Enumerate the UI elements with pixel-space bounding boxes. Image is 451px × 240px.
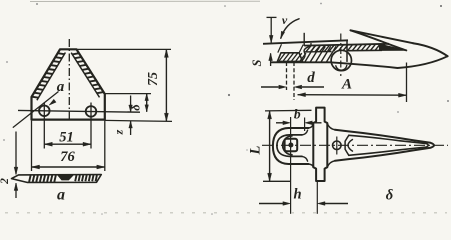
svg-text:76: 76 [60, 149, 75, 165]
svg-text:h: h [293, 187, 301, 203]
svg-text:S: S [250, 59, 264, 66]
svg-text:A: A [341, 77, 352, 93]
svg-text:а: а [57, 187, 65, 204]
svg-text:L: L [248, 145, 264, 155]
svg-text:b: b [294, 107, 301, 122]
svg-text:z: z [112, 129, 126, 135]
svg-text:2: 2 [0, 178, 11, 185]
svg-text:51: 51 [59, 130, 74, 146]
svg-text:75: 75 [146, 72, 161, 86]
svg-text:v: v [282, 13, 288, 27]
svg-text:δ: δ [386, 188, 393, 204]
svg-text:d: d [307, 70, 315, 86]
svg-text:a: a [57, 79, 65, 95]
